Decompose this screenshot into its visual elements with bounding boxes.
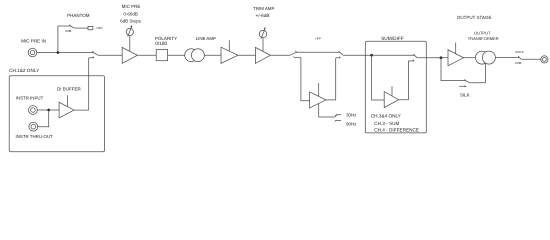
op-amp U7 output [448,43,464,66]
svg-text:0-66dB: 0-66dB [123,11,138,16]
svg-text:MUTE: MUTE [515,50,524,54]
wire amp to transformer [464,57,476,59]
svg-text:OUTPUT STAGE: OUTPUT STAGE [457,15,492,20]
wire sum/diff amp output [399,61,409,100]
junction instr thru tap [47,109,50,112]
wire phantom vertical [57,26,59,53]
transformer T1 line input [185,49,205,62]
potentiometer R2 trim [259,27,266,38]
svg-text:90Hz: 90Hz [346,122,356,127]
wire amp to polarity [137,54,156,56]
wire hpf out to sum/diff switch [343,54,414,56]
svg-text:HPF: HPF [315,37,321,41]
svg-text:+48V: +48V [96,26,103,30]
svg-text:CH.4 - DIFFERENCE: CH.4 - DIFFERENCE [374,128,419,133]
svg-text:SUM/DIFF: SUM/DIFF [381,36,404,42]
sum/diff output contact [408,60,414,61]
wire switch to mic pre amp [98,54,122,56]
svg-text:OUTPUT: OUTPUT [474,31,491,36]
svg-text:DI BUFFER: DI BUFFER [57,87,82,92]
wire hpf freq select [319,104,335,118]
svg-text:0/180: 0/180 [155,41,167,47]
hpf output contact [336,57,341,58]
svg-text:TRIM AMP: TRIM AMP [253,6,274,11]
svg-text:6dB Steps: 6dB Steps [120,18,142,23]
box CH.1&2 DI buffer [9,76,104,152]
svg-text:CH.3 - SUM: CH.3 - SUM [374,121,399,126]
label TRIM AMP [253,6,274,18]
wire phantom horizontal [58,25,70,27]
wire DI return vertical [88,58,90,110]
svg-text:INSTR INPUT: INSTR INPUT [16,95,44,100]
supply +48V box [88,26,93,29]
wire mic input to switch [37,52,94,54]
svg-text:CH.3&4 ONLY: CH.3&4 ONLY [371,114,402,119]
op-amp U8 di buffer [59,95,74,118]
wire phantom to supply [75,27,89,29]
label POLARITY 0/180 [155,36,177,47]
switch SW6 sum/diff select [413,54,417,58]
transformer T2 output [476,51,496,64]
switch SW4 hpf frequency [335,115,341,122]
connector J3 INSTR THRU-OUT [29,122,38,131]
switch SW7 mute [515,56,522,64]
svg-text:MIC PRE IN: MIC PRE IN [21,39,46,44]
op-amp U5 hpf [310,83,326,108]
wire silk to transformer [469,64,485,83]
op-amp U4 trim amp [255,47,270,63]
junction silk tap [440,56,443,59]
label MIC PRE gain [120,4,142,24]
box SUM/DIFF [365,41,426,133]
wire trim amp to hpf switch [270,54,290,56]
svg-text:INSTR THRU-OUT: INSTR THRU-OUT [16,134,54,139]
label OUTPUT TRANSFORMER [468,31,499,42]
junction sum/diff input [370,54,373,57]
svg-text:MIC PRE: MIC PRE [122,4,141,9]
wire instr thru-out [38,110,49,127]
connector J2 INSTR INPUT [29,106,38,115]
switch SW5 hpf out [339,51,343,55]
wire hpf filter input [301,58,310,101]
junction phantom tap [57,51,60,54]
svg-text:LINE AMP: LINE AMP [196,36,216,41]
switch SW3 hpf in [290,51,301,58]
op-amp U1 mic pre [122,47,137,63]
wire transformer to mute [495,57,519,59]
svg-text:POLARITY: POLARITY [155,36,177,41]
wire line amp to trim amp [238,54,256,56]
connector J4 output [541,56,548,63]
op-amp U3 line amp [221,40,238,63]
wire pot to amp [129,36,131,52]
wire hpf bypass [296,51,339,53]
switch U2 polarity box [156,50,167,61]
wire to output stage [417,57,448,59]
wire polarity to transformer [168,54,185,56]
svg-text:TRANSFORMER: TRANSFORMER [468,36,499,41]
svg-text:30Hz: 30Hz [346,112,356,117]
wire silk feedback [441,58,465,81]
wire mute to output connector [521,58,541,60]
potentiometer R1 mic gain [126,25,133,36]
wire pot to trim amp [262,38,264,52]
wire di buffer output [74,109,89,111]
svg-text:CH.1&2 ONLY: CH.1&2 ONLY [9,68,40,73]
wire instr input to amp [37,109,59,111]
switch SW8 silk [459,79,469,87]
wire sum/diff amp input [372,55,385,100]
switch SW2 mic/DI select [89,51,98,58]
svg-text:+/-6dB: +/-6dB [256,13,270,18]
wire transformer to line amp [204,54,221,56]
svg-text:SILK: SILK [460,93,470,98]
wire hpf output return [326,58,336,100]
connector J1 MIC PRE IN [28,48,37,57]
svg-text:PHANTOM: PHANTOM [67,13,90,18]
switch SW1 phantom [65,25,75,32]
op-amp U6 sum/diff [384,86,398,107]
